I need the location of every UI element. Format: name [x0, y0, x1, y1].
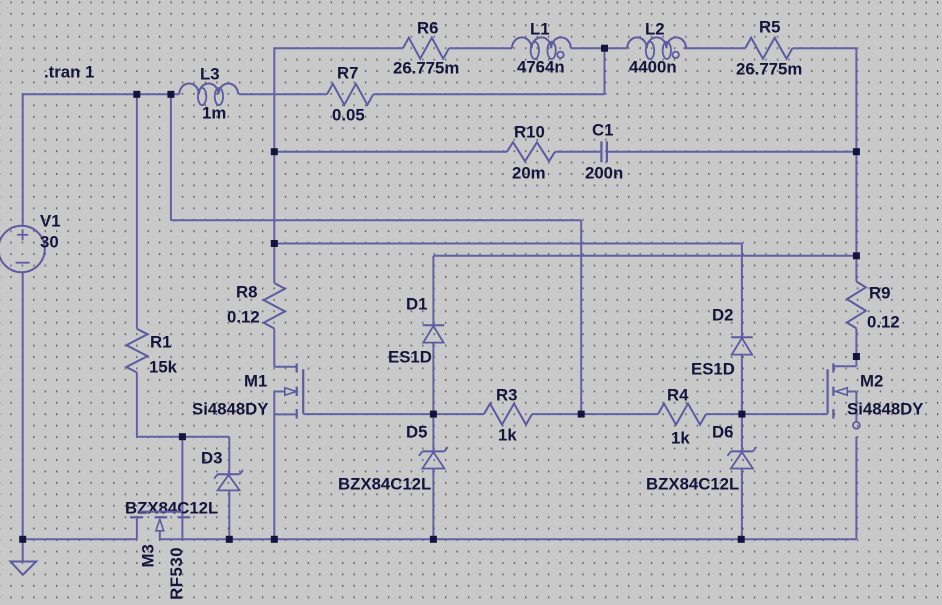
- svg-text:Si4848DY: Si4848DY: [192, 400, 269, 419]
- wire V1 bottom lead: [22, 272, 24, 540]
- svg-text:BZX84C12L: BZX84C12L: [646, 475, 739, 494]
- svg-text:M3: M3: [139, 544, 158, 567]
- resistor R4: [658, 404, 706, 425]
- resistor R5: [745, 38, 792, 59]
- wire gate line R4 to M2: [706, 413, 828, 415]
- resistor R10: [507, 142, 555, 161]
- wire D6 top lead: [741, 414, 743, 451]
- resistor R8: [264, 283, 285, 329]
- node H junction mid: [578, 411, 585, 418]
- svg-text:R1: R1: [150, 333, 171, 352]
- resistor R9: [847, 282, 866, 329]
- node E junction: [853, 252, 860, 259]
- svg-text:ES1D: ES1D: [388, 348, 432, 367]
- resistor R1: [126, 329, 147, 373]
- transistor M3 (rotated NMOS): [130, 512, 190, 540]
- zener diode D6: [728, 447, 757, 469]
- wire D2 anode lead: [741, 354, 743, 414]
- node D junction: [271, 240, 278, 247]
- wire D1 anode lead: [432, 343, 434, 414]
- wire V1 top lead: [22, 94, 24, 226]
- svg-text:M1: M1: [244, 372, 267, 391]
- svg-text:D2: D2: [712, 306, 733, 325]
- svg-text:20m: 20m: [512, 164, 546, 183]
- svg-text:R8: R8: [236, 283, 257, 302]
- inductor L1: [512, 37, 571, 59]
- wire L3 to R7 segment: [239, 93, 327, 95]
- wire D5 bottom lead: [432, 469, 434, 540]
- wire gate-feed vertical x171: [170, 94, 172, 220]
- transistor M1 (mirrored NMOS): [274, 363, 303, 418]
- svg-text:BZX84C12L: BZX84C12L: [125, 499, 218, 518]
- svg-text:R7: R7: [337, 64, 358, 83]
- svg-text:IRF530: IRF530: [167, 547, 186, 600]
- svg-text:30: 30: [40, 233, 59, 252]
- wire M3 source riser x182: [181, 437, 183, 539]
- inductor L3: [179, 84, 238, 106]
- svg-text:0.12: 0.12: [227, 308, 260, 327]
- wire R8 to M1 drain: [273, 329, 275, 367]
- svg-text:ES1D: ES1D: [691, 360, 735, 379]
- node F junction: [179, 433, 186, 440]
- svg-text:L2: L2: [645, 20, 665, 39]
- svg-text:D3: D3: [201, 449, 222, 468]
- node O junction D6 bottom: [738, 536, 745, 543]
- svg-text:D5: D5: [406, 423, 427, 442]
- zener diode D5: [419, 447, 448, 469]
- svg-text:V1: V1: [40, 212, 61, 231]
- wire mid rail y243: [274, 243, 742, 245]
- wire R10-C1 segment: [555, 151, 601, 153]
- node B junction: [167, 91, 174, 98]
- svg-text:R6: R6: [417, 19, 438, 38]
- wire R1 bottom lead: [136, 373, 138, 437]
- svg-text:R5: R5: [759, 18, 780, 37]
- svg-text:L3: L3: [200, 65, 220, 84]
- wire R10 row left segment: [274, 151, 507, 153]
- wire x581 gate drop: [580, 220, 582, 414]
- wire D2 riser corner: [741, 244, 743, 338]
- transistor M2 (NMOS): [828, 357, 860, 429]
- wire mid rail y256: [433, 255, 856, 257]
- svg-text:4764n: 4764n: [517, 58, 565, 77]
- node K junction ground: [19, 536, 26, 543]
- svg-text:0.05: 0.05: [332, 106, 365, 125]
- svg-text:L1: L1: [530, 20, 550, 39]
- node G junction D5: [430, 411, 437, 418]
- wire top rail right segment: [792, 47, 856, 49]
- wire gate node horizontal y437: [137, 436, 229, 438]
- wire R7 to riser segment: [373, 93, 604, 95]
- wire M1 source to bottom: [273, 392, 275, 540]
- wire gate line M1 to R3: [303, 413, 484, 415]
- node L junction D3 bottom: [226, 536, 233, 543]
- wire V+ rail from V1 to L3: [23, 93, 180, 95]
- diode D2: [731, 337, 753, 354]
- svg-text:D6: D6: [712, 423, 733, 442]
- capacitor C1: [601, 141, 607, 162]
- zener diode D3: [214, 470, 243, 491]
- wire gate line R3 to R4: [532, 413, 658, 415]
- wire bottom-right riser: [855, 437, 857, 540]
- svg-text:R4: R4: [667, 386, 689, 405]
- wire bottom rail main segment: [160, 538, 857, 540]
- node I junction D6: [738, 411, 745, 418]
- node J junction M2 drain: [853, 353, 860, 360]
- wire C1 to right rail segment: [607, 151, 857, 153]
- wire D1 riser corner: [432, 256, 434, 325]
- wire top rail left segment: [274, 47, 403, 49]
- svg-text:1k: 1k: [498, 426, 517, 445]
- wire D5 top lead: [432, 414, 434, 451]
- wire R1 top lead x137: [136, 94, 138, 328]
- wire D3 bottom lead: [228, 490, 230, 539]
- wire top rail R6-L1 segment: [449, 47, 512, 49]
- node C junction right: [853, 148, 860, 155]
- diode D1: [423, 325, 445, 342]
- node C junction left: [271, 148, 278, 155]
- wire left rail x274 upper: [273, 48, 275, 283]
- wire D6 bottom lead: [741, 469, 743, 540]
- resistor R3: [484, 404, 532, 425]
- wire top rail L2-R5 segment: [684, 47, 746, 49]
- svg-text:200n: 200n: [585, 164, 623, 183]
- ground: [11, 539, 37, 575]
- svg-text:R3: R3: [496, 386, 517, 405]
- svg-text:1k: 1k: [671, 429, 690, 448]
- svg-text:BZX84C12L: BZX84C12L: [338, 475, 431, 494]
- resistor R7: [327, 84, 373, 105]
- svg-text:1m: 1m: [202, 104, 226, 123]
- node N junction D5 bottom: [430, 536, 437, 543]
- svg-text:M2: M2: [860, 372, 883, 391]
- svg-text:R9: R9: [869, 284, 890, 303]
- wire D3 top lead: [228, 437, 230, 475]
- svg-text:R10: R10: [514, 123, 545, 142]
- svg-text:.tran 1: .tran 1: [44, 63, 94, 82]
- wire gate-feed horizontal y220: [171, 219, 581, 221]
- svg-text:26.775m: 26.775m: [736, 60, 802, 79]
- node A junction: [133, 91, 140, 98]
- svg-text:Si4848DY: Si4848DY: [847, 400, 924, 419]
- wire R9 to M2 drain: [855, 328, 857, 356]
- svg-text:26.775m: 26.775m: [393, 59, 459, 78]
- svg-text:0.12: 0.12: [867, 313, 900, 332]
- wire right rail upper x856: [855, 48, 857, 281]
- svg-text:C1: C1: [592, 121, 613, 140]
- svg-text:D1: D1: [406, 295, 427, 314]
- svg-text:15k: 15k: [149, 358, 178, 377]
- svg-text:4400n: 4400n: [629, 58, 677, 77]
- wire bottom rail left segment: [23, 538, 137, 540]
- resistor R6: [403, 38, 449, 59]
- voltage source V1: [0, 226, 45, 272]
- node N-L1L2 junction: [601, 45, 608, 52]
- inductor L2: [627, 37, 686, 59]
- wire top rail L1-L2 segment: [571, 47, 627, 49]
- node M junction M1 source: [271, 536, 278, 543]
- wire R7 feed vertical: [604, 48, 606, 94]
